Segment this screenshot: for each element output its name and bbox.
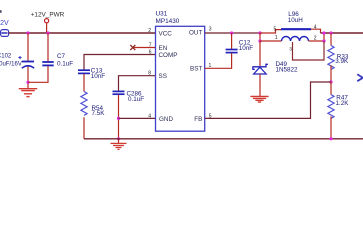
svg-text:2: 2 <box>148 28 151 34</box>
wire R64 to ground rail <box>83 117 85 139</box>
svg-text:MP1430: MP1430 <box>156 18 180 25</box>
node +12V_PWR power port <box>31 12 65 33</box>
junction FB node <box>329 80 332 83</box>
svg-text:7: 7 <box>149 42 152 48</box>
wire L96 pin4 to output <box>311 29 321 33</box>
svg-text:EN: EN <box>159 45 168 52</box>
svg-text:+12V_PWR: +12V_PWR <box>31 12 65 19</box>
wire bus to C102 <box>27 33 29 61</box>
wire L96 pin2 <box>309 33 325 41</box>
junction pin2/out <box>322 31 325 34</box>
junction C102/C7 ground node <box>26 81 29 84</box>
wire FB net <box>205 82 331 118</box>
junction pin2/loop <box>322 39 325 42</box>
svg-text:7.5K: 7.5K <box>92 110 106 117</box>
svg-text:OUT: OUT <box>189 30 202 37</box>
wire C102 to ground <box>27 67 29 89</box>
junction SW at D49 <box>258 31 261 34</box>
junction R33/out <box>329 31 332 34</box>
wire down to D49 <box>259 41 261 66</box>
wire OUT to SW node <box>205 32 260 34</box>
wire C13 to R64 <box>83 74 85 92</box>
wire SW down to coil level <box>259 33 261 41</box>
wire D49 to ground <box>259 74 261 96</box>
node FB off-page arrow <box>357 74 363 81</box>
ground rail <box>84 138 363 140</box>
svg-text:1N5822: 1N5822 <box>276 67 299 74</box>
svg-text:GND: GND <box>159 116 173 123</box>
junction on bus at C102 <box>26 31 29 34</box>
svg-text:10uH: 10uH <box>288 17 304 24</box>
capacitor C286 <box>113 90 145 102</box>
wire R33 to FB node <box>330 65 332 82</box>
svg-text:3: 3 <box>209 27 212 33</box>
capacitor C13 <box>78 67 105 80</box>
ground GND3 <box>250 96 268 102</box>
wire COMP to C13 <box>84 55 156 70</box>
junction at C12 <box>230 31 233 34</box>
op-amp U31 MP1430 body <box>156 11 205 132</box>
svg-text:0.1uF: 0.1uF <box>128 96 144 103</box>
junction on bus at C7/+12V_PWR <box>46 31 49 34</box>
wire C12 to BST pin 1 <box>205 53 232 68</box>
svg-text:10nF: 10nF <box>239 45 254 52</box>
capacitor C102 (polarized) <box>0 54 34 69</box>
wire EN stub <box>132 47 156 49</box>
svg-text:3.9K: 3.9K <box>335 58 349 65</box>
inductor L96 coil <box>282 37 309 41</box>
ground GND1 <box>19 89 37 97</box>
svg-text:3: 3 <box>289 47 292 53</box>
resistor R47 <box>328 94 349 118</box>
junction R47/rail <box>329 137 332 140</box>
svg-text:1.2K: 1.2K <box>336 100 350 107</box>
wire output rail <box>321 32 363 34</box>
wire L96 pin3 loop <box>293 41 325 60</box>
wire C286 down to rail <box>118 95 120 139</box>
wire GND pin 4 <box>119 117 156 119</box>
svg-text:COMP: COMP <box>159 52 178 59</box>
diode D49 1N5822 <box>253 61 298 74</box>
svg-text:BST: BST <box>190 66 202 73</box>
wire bus to C7 <box>47 33 49 61</box>
capacitor C12 <box>226 40 254 53</box>
svg-text:U31: U31 <box>156 11 168 18</box>
wire SW to L96 pin5 <box>260 30 281 33</box>
resistor R64 <box>81 92 105 117</box>
svg-text:SS: SS <box>159 73 167 80</box>
junction rail at C286 <box>117 137 120 140</box>
svg-text:C102: C102 <box>0 54 12 60</box>
svg-text:10nF: 10nF <box>91 73 106 80</box>
svg-text:C7: C7 <box>57 53 66 60</box>
svg-text:0.1uF: 0.1uF <box>57 61 73 68</box>
wire out to R33 <box>330 33 332 46</box>
wire +12V bus to VCC <box>9 32 156 34</box>
ground GND2 <box>111 139 127 150</box>
inductor L96 shield winding <box>281 11 311 29</box>
wire FB node to R47 <box>330 82 332 95</box>
wire SW to C12 <box>231 33 233 49</box>
svg-text:1: 1 <box>275 35 278 41</box>
capacitor C7 <box>42 53 73 67</box>
svg-text:6: 6 <box>149 49 152 55</box>
svg-text:4: 4 <box>148 113 151 119</box>
no-connect X on EN <box>130 45 135 50</box>
svg-text:5: 5 <box>274 26 277 32</box>
wire SS to C286 <box>119 76 156 91</box>
wire R47 to rail <box>330 116 332 138</box>
junction GND pin / C286 <box>117 117 120 120</box>
junction coil node <box>258 39 261 42</box>
stray cut text fragment top-left <box>0 10 2 13</box>
wire coil feed <box>260 40 282 42</box>
svg-text:12V: 12V <box>0 20 9 27</box>
node +12V off-page port <box>0 20 9 36</box>
svg-text:8: 8 <box>148 71 151 77</box>
svg-text:VCC: VCC <box>159 30 173 37</box>
svg-text:100uF/16V: 100uF/16V <box>0 61 22 67</box>
wire C7 down to ground node <box>28 66 48 82</box>
resistor R33 <box>328 46 349 70</box>
svg-text:FB: FB <box>194 116 202 123</box>
